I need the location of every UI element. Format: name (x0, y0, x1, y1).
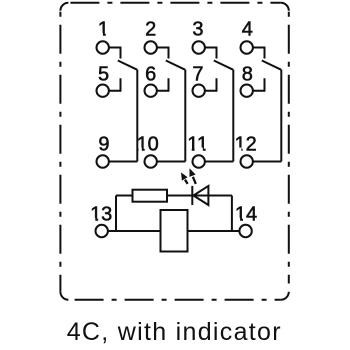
relay coil (161, 210, 188, 252)
wire left branch junction (vertical) (115, 196, 117, 232)
armature contact group 1 (118, 61, 138, 70)
pin 5 terminal (97, 85, 109, 97)
relay enclosure outline: top edge (chain line) (68, 2, 280, 4)
wire right branch junction (vertical) (231, 196, 233, 232)
wire pin7 NO contact hook (205, 78, 217, 90)
relay enclosure outline: right edge (chain line) (288, 11, 290, 284)
svg-text:2: 2 (145, 19, 156, 41)
svg-text:4: 4 (242, 19, 253, 41)
contact group 3: pin 3 terminal (193, 41, 205, 53)
svg-text:11: 11 (187, 133, 208, 155)
relay enclosure outline: top-right corner arc (281, 3, 289, 11)
svg-text:4C, with indicator: 4C, with indicator (67, 318, 282, 346)
wire pin2 to NC contact stub (157, 48, 169, 59)
wire pin10 to common (157, 161, 185, 163)
common wire group 4 (vertical) (280, 70, 282, 162)
pin 8 terminal (241, 85, 253, 97)
wire pin3 to NC contact stub (205, 48, 217, 59)
wire pin1 to NC contact stub (109, 48, 121, 59)
svg-text:1: 1 (98, 19, 109, 41)
common wire group 1 (vertical) (136, 70, 138, 162)
common wire group 3 (vertical) (232, 70, 234, 162)
wire pin4 to NC contact stub (253, 48, 265, 59)
wire pin6 NO contact hook (157, 78, 169, 90)
armature contact group 4 (262, 61, 282, 70)
svg-text:9: 9 (98, 133, 109, 155)
relay enclosure outline: left edge (chain line) (59, 11, 61, 292)
svg-text:12: 12 (234, 133, 256, 155)
svg-text:14: 14 (235, 204, 257, 226)
pin 13 terminal (96, 225, 108, 237)
svg-text:10: 10 (137, 133, 159, 155)
wire pin9 to common (109, 161, 137, 163)
pin 11 terminal (193, 155, 205, 167)
pin 9 terminal (97, 155, 109, 167)
resistor (indicator series) (133, 190, 168, 202)
LED cathode bar (191, 186, 193, 205)
relay enclosure outline: bottom edge (chain line) (68, 299, 280, 301)
svg-text:8: 8 (242, 63, 253, 85)
wire resistor to LED to right junction (167, 195, 232, 197)
contact group 4: pin 4 terminal (241, 41, 253, 53)
contact group 2: pin 2 terminal (145, 41, 157, 53)
LED light arrow 1 (181, 172, 188, 184)
LED light arrow 2 (190, 168, 196, 184)
pin 14 terminal (239, 225, 251, 237)
pin 12 terminal (241, 155, 253, 167)
LED triangle (193, 186, 208, 205)
wire pin8 NO contact hook (253, 78, 265, 90)
pin 10 terminal (145, 155, 157, 167)
pin 6 terminal (145, 85, 157, 97)
contact group 1: pin 1 terminal (97, 41, 109, 53)
common wire group 2 (vertical) (184, 70, 186, 162)
svg-text:6: 6 (145, 63, 156, 85)
svg-text:13: 13 (90, 204, 112, 226)
armature contact group 2 (166, 61, 186, 70)
wire pin11 to common (205, 161, 233, 163)
relay enclosure outline: top-left corner arc (60, 3, 68, 11)
wire junction to resistor (116, 195, 133, 197)
svg-text:7: 7 (192, 63, 203, 85)
wire pin5 NO contact hook (109, 78, 121, 90)
relay enclosure outline: bottom-right corner arc (281, 292, 289, 300)
pin 7 terminal (193, 85, 205, 97)
svg-text:3: 3 (192, 19, 203, 41)
svg-text:5: 5 (98, 63, 109, 85)
relay enclosure outline: bottom-left corner arc (60, 292, 68, 300)
wire pin12 to common (253, 161, 281, 163)
armature contact group 3 (214, 61, 234, 70)
main wire pin13 to pin14 (108, 230, 240, 232)
